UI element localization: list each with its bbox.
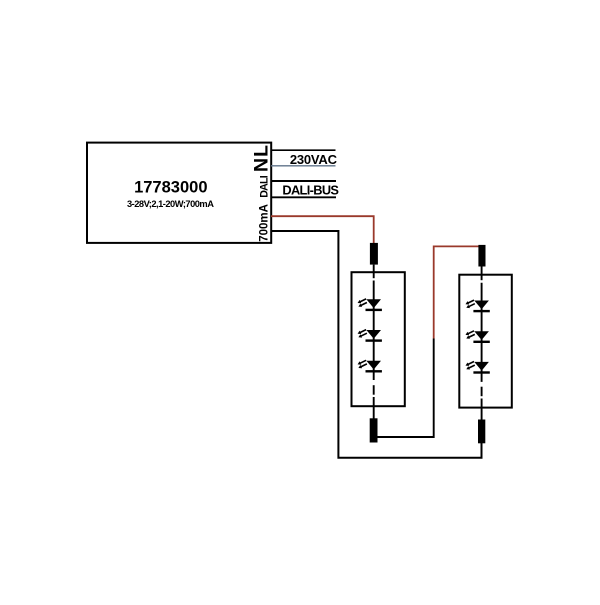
connector pin module1 top (370, 243, 378, 265)
connector pin module2 top (478, 245, 485, 267)
LED driver box 17783000 (87, 143, 271, 243)
connector pin module2 bottom (478, 420, 485, 444)
module 1 internal wire dashed (373, 265, 375, 419)
wire DALI 1 (271, 180, 336, 182)
wire 700mA plus red (271, 216, 374, 250)
wire series link black lower part (377, 339, 433, 438)
wire series link red upper part (434, 246, 482, 338)
svg-text:17783000: 17783000 (134, 178, 207, 196)
LED module 1 outline (352, 272, 405, 406)
wire 700mA minus black return (271, 231, 482, 458)
svg-text:700mA: 700mA (259, 204, 271, 242)
LED D4 (466, 300, 490, 312)
wire N 230VAC blue (271, 165, 336, 167)
LED D5 (466, 331, 490, 343)
wire DALI 2 (271, 196, 336, 198)
LED module 2 outline (459, 275, 512, 408)
LED D6 (466, 362, 490, 374)
svg-text:DALI-BUS: DALI-BUS (282, 182, 339, 197)
connector pin module1 bottom (370, 418, 378, 442)
LED D1 (358, 299, 382, 311)
wire L 230VAC (271, 149, 336, 151)
svg-text:NL: NL (251, 144, 273, 172)
svg-text:DALI: DALI (259, 175, 271, 198)
svg-text:3-28V;2,1-20W;700mA: 3-28V;2,1-20W;700mA (127, 199, 214, 209)
LED D3 (358, 360, 382, 372)
LED D2 (358, 330, 382, 342)
module 2 internal wire dashed (481, 267, 483, 421)
svg-text:230VAC: 230VAC (290, 152, 338, 167)
